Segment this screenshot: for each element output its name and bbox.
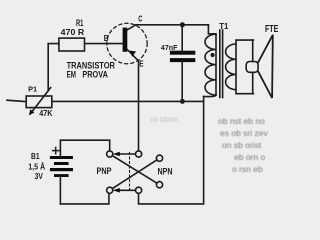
dashed circle transistor envelope — [107, 23, 147, 63]
svg-text:B1: B1 — [31, 151, 40, 161]
svg-text:P1: P1 — [28, 84, 37, 93]
svg-text:C: C — [138, 14, 142, 23]
switch S1 contact BL — [107, 187, 113, 193]
transformer T1 primary bumps — [205, 34, 216, 95]
ink blob on primary winding — [211, 53, 215, 57]
resistor R1 — [59, 38, 85, 51]
switch S1 pole BM — [136, 187, 142, 193]
wire bottom left rail — [60, 193, 109, 204]
capacitor C1 plates — [170, 51, 195, 55]
svg-text:FTE: FTE — [265, 24, 279, 35]
transformer T1 primary winding entry — [208, 25, 214, 34]
node junction dot capacitor bottom — [180, 99, 185, 104]
svg-text:EM: EM — [67, 69, 76, 80]
svg-text:B: B — [104, 33, 109, 43]
switch wiper arrow bottom — [117, 189, 136, 191]
svg-text:PROVA: PROVA — [82, 69, 108, 80]
node junction dot top rail to capacitor — [180, 22, 185, 27]
battery B1 top lead and rail to switch — [60, 140, 109, 156]
transformer T1 secondary bumps — [226, 44, 236, 90]
transformer T1 secondary spine and leads — [236, 40, 253, 94]
wire emitter lead — [127, 50, 138, 151]
svg-text:NPN: NPN — [158, 166, 173, 177]
svg-text:3V: 3V — [35, 171, 44, 181]
svg-text:es ob sri zev: es ob sri zev — [220, 128, 268, 138]
wire base lead — [85, 43, 123, 45]
switch S1 pole TM — [136, 151, 142, 157]
wire crossover diagonal BL-TR — [112, 160, 157, 189]
wire collector lead — [127, 25, 136, 30]
transformer T1 core lines — [219, 30, 221, 98]
svg-text:ro obsn: ro obsn — [150, 114, 179, 124]
svg-text:on sb orist: on sb orist — [222, 140, 262, 150]
svg-text:PNP: PNP — [97, 166, 112, 177]
wire bottom right rail to transformer return — [139, 96, 204, 203]
svg-text:eb orn o: eb orn o — [234, 152, 265, 162]
svg-text:E: E — [139, 59, 144, 69]
transistor Q1 base bar — [123, 28, 128, 52]
svg-text:o rsn eb: o rsn eb — [232, 164, 263, 174]
wire crossover diagonal TL-BR — [112, 156, 157, 184]
wire P1 left stub — [7, 100, 26, 101]
battery B1 plates — [50, 156, 73, 159]
wire R1 left to P1 wiper — [48, 44, 59, 91]
svg-text:47K: 47K — [39, 109, 52, 118]
transistor Q1 emitter arrow — [130, 51, 137, 57]
svg-text:47nF: 47nF — [161, 45, 178, 52]
svg-text:T1: T1 — [219, 21, 229, 31]
switch S1 contact TL — [107, 151, 113, 157]
switch S1 contact TR — [156, 155, 162, 161]
svg-text:1,5 Å: 1,5 Å — [28, 162, 45, 172]
wire top rail — [136, 24, 209, 26]
speaker FTE driver square — [246, 62, 258, 73]
battery B1 bottom lead — [59, 177, 61, 204]
switch mechanical dashed link — [129, 153, 131, 192]
capacitor C1 leads — [181, 25, 183, 51]
svg-text:470 R: 470 R — [61, 27, 84, 37]
transformer T1 primary spine — [215, 34, 217, 95]
speaker FTE cone — [258, 35, 273, 98]
speaker FTE stubs — [252, 40, 254, 61]
switch S1 contact BR — [156, 182, 162, 188]
transformer T1 primary exit — [204, 95, 216, 97]
battery plus sign — [53, 150, 59, 152]
switch wiper arrow top — [117, 153, 136, 155]
wire main lower rail P1 to transformer return — [52, 100, 204, 102]
P1 wiper arrow — [31, 88, 50, 113]
potentiometer P1 — [26, 96, 52, 108]
svg-text:ob nst eb no: ob nst eb no — [218, 116, 265, 126]
